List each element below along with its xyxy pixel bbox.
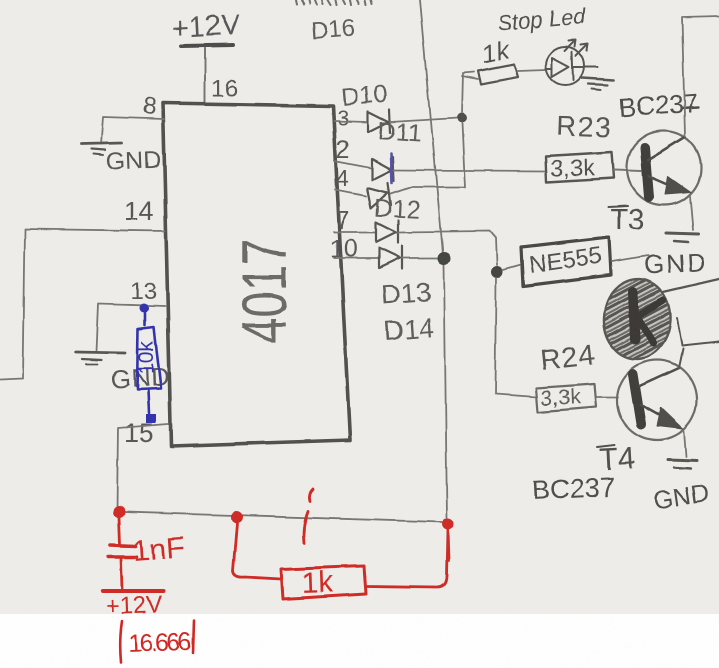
LED stop bbox=[546, 47, 597, 85]
ground symbol (T3) bbox=[666, 233, 698, 242]
scribbled transistor blob bbox=[601, 277, 672, 361]
wire pin 7 to D13 bbox=[334, 231, 375, 233]
resistor 3,3k (R23) bbox=[546, 152, 614, 182]
wire LED node up to resistor bbox=[462, 72, 474, 113]
LED arrows bbox=[565, 40, 588, 56]
wire NE555 node down to R24 bbox=[495, 278, 537, 397]
wire NE555 node to box bbox=[503, 265, 521, 270]
wire pin 14 to left edge bbox=[0, 229, 165, 380]
wire T3 collector to top right bbox=[682, 16, 719, 136]
ground symbol (pin 8) bbox=[81, 143, 122, 155]
wire pin 8 to ground bbox=[101, 117, 164, 144]
wire T3 emitter to ground bbox=[690, 196, 693, 230]
node LED-line junction bbox=[457, 113, 467, 123]
wire D14 to junction bbox=[402, 257, 439, 259]
resistor 3,3k (R24) bbox=[536, 384, 596, 412]
diode D10 bbox=[368, 110, 390, 133]
wire LED node down to D12 wire bbox=[462, 123, 465, 187]
diode D13 bbox=[376, 220, 398, 243]
wire R23 to T3 base bbox=[614, 170, 641, 171]
wire T4 emitter to ground bbox=[684, 431, 686, 457]
wire pin 15 down to node A bbox=[117, 424, 168, 509]
red node C bbox=[442, 518, 454, 530]
diode D12 bbox=[367, 183, 391, 208]
svg-text:16.666: 16.666 bbox=[127, 628, 191, 658]
+12V rail (red, bottom) bbox=[103, 589, 164, 593]
capacitor 1nF bbox=[108, 518, 137, 589]
wire pin 4 to D12 bbox=[335, 190, 366, 196]
ground symbol (T4) bbox=[668, 460, 697, 469]
wire D10 to LED node bbox=[390, 118, 458, 122]
bottom horizontal wire node A to node C bbox=[124, 512, 442, 522]
red wire 1k to node C bbox=[366, 530, 448, 587]
ground symbol (pin 13) bbox=[76, 352, 125, 364]
resistor 1k (LED) bbox=[478, 64, 518, 84]
wire pin 2 to D11 bbox=[334, 161, 371, 168]
IC U1 4017 bbox=[163, 103, 350, 446]
wire T4 collector to right edge bbox=[677, 318, 719, 346]
label T3 bbox=[609, 204, 645, 236]
wire D13 to NE555 node bbox=[398, 231, 497, 265]
transistor T3 bbox=[627, 131, 701, 205]
ground symbol (LED) bbox=[582, 78, 614, 90]
red dashed mark bbox=[304, 489, 314, 543]
cut-off text at top edge bbox=[296, 0, 372, 5]
red node B bbox=[231, 511, 243, 523]
blue mark on D11 cathode bbox=[391, 154, 392, 183]
blue resistor 10k bbox=[135, 304, 161, 424]
wire D12 to LED node line bbox=[391, 187, 464, 194]
label T4 bbox=[597, 440, 637, 477]
transistor T4 bbox=[617, 360, 697, 440]
red node A bbox=[113, 506, 125, 518]
diode D11 bbox=[372, 157, 394, 181]
node NE555 junction bbox=[491, 266, 503, 278]
resistor 1k (red) bbox=[281, 566, 366, 600]
wire D11 to R23 bbox=[394, 170, 546, 171]
wire blob to right edge bbox=[663, 279, 719, 292]
wire T4 collector ext bbox=[679, 349, 683, 368]
diode D14 bbox=[379, 246, 402, 269]
node D14 junction bbox=[438, 252, 451, 265]
wire R24 to T4 base bbox=[596, 396, 618, 398]
wire 1k to LED bbox=[518, 70, 546, 71]
red stub below node C bbox=[448, 530, 449, 560]
wire pin 13 node to ground bbox=[96, 304, 165, 351]
red wire node B to 1k bbox=[233, 523, 281, 579]
wire pin 10 to D14 bbox=[334, 257, 378, 259]
wire +12V to pin 16 bbox=[204, 48, 206, 102]
+12V rail bar bbox=[181, 45, 233, 46]
timer NE555 bbox=[521, 237, 611, 286]
vertical wire from top edge to D14 junction bbox=[420, 0, 443, 254]
wire node D14 junction down to node C bbox=[444, 264, 447, 518]
wire pin 3 to D10 bbox=[334, 121, 367, 122]
wire NE555 to GND label bbox=[612, 256, 648, 262]
